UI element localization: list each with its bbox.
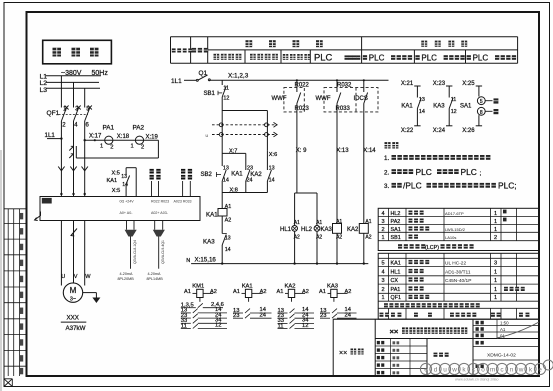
ammeter loop wire	[85, 139, 159, 141]
svg-text:8PL20MB: 8PL20MB	[118, 277, 135, 281]
left margin revision table	[4, 208, 27, 210]
svg-text:A1: A1	[225, 204, 232, 210]
svg-text:4: 4	[382, 269, 385, 275]
breaker QF1 pole 1	[60, 104, 62, 108]
svg-text:2: 2	[141, 145, 144, 151]
svg-text:KA2: KA2	[285, 283, 296, 289]
ground	[83, 292, 97, 294]
svg-text:u: u	[443, 367, 447, 374]
svg-text:N: N	[186, 258, 190, 264]
svg-text:KA2: KA2	[347, 227, 359, 233]
drawing title cell	[434, 353, 438, 357]
svg-text:1: 1	[131, 144, 134, 150]
svg-text:A37kW: A37kW	[66, 325, 86, 332]
svg-text:V: V	[74, 274, 78, 280]
svg-text:1.: 1.	[384, 155, 389, 162]
svg-text:Q3VA-CL9-4Q1: Q3VA-CL9-4Q1	[161, 240, 165, 264]
svg-text:A1: A1	[233, 289, 240, 295]
svg-text:(LCP): (LCP)	[425, 245, 439, 251]
svg-text:X:19: X:19	[146, 135, 159, 141]
start/stop signal stubs	[150, 169, 154, 174]
soft starter logo	[42, 198, 52, 204]
svg-text:14: 14	[122, 182, 128, 188]
svg-text:w: w	[518, 367, 524, 374]
junction dots at starter input	[60, 193, 62, 195]
header cell 就地控制	[214, 54, 220, 60]
svg-text:AD17-6TP: AD17-6TP	[445, 211, 464, 216]
title block frame	[333, 318, 539, 320]
svg-text:U: U	[61, 274, 65, 280]
wire phase C drop	[84, 88, 86, 104]
wire phase B drop	[73, 82, 75, 104]
header cell 到PLC位置信号	[467, 55, 471, 60]
svg-text:14: 14	[225, 247, 231, 253]
svg-text:HL2: HL2	[391, 211, 401, 217]
bus L2	[46, 81, 99, 83]
watermark swoosh	[497, 322, 539, 338]
svg-text:X:13: X:13	[336, 148, 349, 154]
svg-text:QF1: QF1	[47, 110, 60, 117]
wire phase A to starter	[60, 127, 62, 197]
svg-text:1: 1	[382, 295, 385, 301]
svg-text:k: k	[462, 367, 466, 374]
contact KA3	[448, 86, 450, 98]
terminal X:22	[414, 125, 420, 127]
svg-text:SB2: SB2	[201, 172, 213, 178]
svg-text:SA1: SA1	[460, 103, 472, 109]
soft starter box	[40, 197, 200, 221]
svg-text:2: 2	[494, 235, 497, 241]
svg-text:××: ××	[339, 350, 347, 357]
contact KA1	[416, 86, 418, 98]
svg-text:X:6: X:6	[269, 152, 277, 158]
svg-text:AD1-30/T11: AD1-30/T11	[445, 269, 471, 275]
svg-text:X:24: X:24	[433, 128, 446, 134]
svg-text:2: 2	[62, 123, 66, 129]
plug-socket row 1	[212, 124, 278, 126]
header cell 断路器	[192, 48, 196, 53]
svg-text:A1: A1	[184, 289, 191, 295]
svg-text:PLC: PLC	[473, 53, 489, 62]
svg-text:KA3: KA3	[203, 239, 215, 246]
svg-text:R033: R033	[336, 106, 351, 112]
svg-text:u: u	[206, 133, 209, 138]
header cell 运行指示	[283, 54, 289, 60]
svg-text:SA1: SA1	[391, 227, 401, 233]
motor M	[63, 283, 82, 302]
BOM table upper section	[378, 208, 539, 250]
svg-text:A2: A2	[365, 234, 371, 240]
interlock contact KA3	[221, 216, 223, 234]
svg-text:WWF: WWF	[316, 96, 331, 102]
wire phase A drop	[60, 76, 62, 104]
svg-text:1: 1	[494, 227, 497, 233]
analog output cable 2	[154, 221, 156, 230]
svg-text:4-20mA: 4-20mA	[148, 272, 161, 276]
svg-text:KA2: KA2	[250, 172, 262, 178]
svg-text:w: w	[451, 367, 457, 374]
svg-text:;: ;	[480, 170, 482, 177]
header cell 控制回路	[246, 40, 253, 47]
svg-text:PLC;: PLC;	[498, 181, 517, 191]
svg-text:X:14: X:14	[363, 148, 376, 154]
svg-text:13: 13	[269, 166, 275, 172]
svg-text:X:8: X:8	[230, 187, 238, 193]
svg-text:X:15,16: X:15,16	[195, 257, 217, 264]
svg-text:1: 1	[382, 235, 385, 241]
svg-text:1: 1	[494, 269, 497, 275]
svg-text:KA3: KA3	[321, 227, 333, 233]
svg-text:1: 1	[100, 144, 103, 150]
breaker QF1 pole 3	[84, 104, 86, 108]
svg-text:UL HC-22: UL HC-22	[445, 260, 466, 266]
svg-text:R022 R023: R022 R023	[151, 200, 169, 204]
svg-text:24: 24	[345, 312, 352, 318]
svg-text:Q3VA-CL8-1Q4: Q3VA-CL8-1Q4	[133, 240, 137, 264]
svg-text:0Ω +24V: 0Ω +24V	[120, 200, 135, 204]
svg-text:c: c	[500, 367, 504, 374]
svg-text:12: 12	[215, 323, 221, 329]
notes title 说明	[385, 142, 391, 148]
svg-text:e: e	[424, 367, 428, 374]
svg-text:23: 23	[247, 166, 253, 172]
BOM note row	[384, 303, 388, 307]
svg-text:PA2: PA2	[391, 219, 401, 225]
svg-text:XDMG-14-02: XDMG-14-02	[487, 352, 516, 358]
svg-text:KA3: KA3	[327, 283, 338, 289]
wire phase C to starter	[84, 127, 86, 197]
isolator Q1	[184, 79, 197, 81]
wire KA1 loop to starter	[125, 168, 127, 175]
plug-socket row 2	[212, 134, 278, 136]
svg-text:5: 5	[480, 99, 483, 105]
terminal X:24	[446, 125, 452, 127]
svg-text:11: 11	[451, 97, 457, 103]
svg-text:A2: A2	[302, 289, 309, 295]
svg-text:www.eduwk.cn dianqi ziliao: www.eduwk.cn dianqi ziliao	[455, 378, 499, 382]
scale cells	[473, 325, 539, 327]
svg-text:X:1,2,3: X:1,2,3	[228, 73, 249, 80]
svg-text:PLC: PLC	[421, 53, 437, 62]
svg-text:SB1: SB1	[391, 235, 401, 241]
wire SB1 to plugs	[221, 97, 223, 140]
svg-text:X:25: X:25	[462, 81, 475, 87]
svg-text:××: ××	[390, 327, 399, 336]
svg-text:X:17: X:17	[89, 134, 102, 140]
svg-text:PLC: PLC	[369, 53, 385, 62]
svg-text:2: 2	[110, 145, 113, 151]
svg-text:A1: A1	[316, 220, 322, 226]
svg-text:CX: CX	[391, 278, 399, 284]
svg-text:R032: R032	[337, 82, 352, 88]
svg-text:PLC: PLC	[461, 167, 477, 177]
wire X:13 branch	[336, 112, 338, 224]
breaker QF1 linkage	[59, 114, 89, 116]
BOM note row LCP	[398, 244, 402, 248]
svg-text:LW5-15D/2: LW5-15D/2	[445, 227, 466, 232]
svg-text:KA3: KA3	[433, 103, 445, 109]
ammeter PA1	[105, 136, 113, 144]
svg-text:11: 11	[223, 86, 229, 92]
watermark circles	[420, 363, 431, 374]
svg-text:KA1: KA1	[206, 212, 218, 219]
motor feed W	[84, 221, 86, 286]
drawing number cell	[473, 346, 539, 348]
svg-text:A2: A2	[225, 218, 232, 224]
svg-text:1: 1	[494, 219, 497, 225]
svg-text:A02+ A03-: A02+ A03-	[151, 211, 169, 215]
svg-text:A0+ A0-: A0+ A0-	[120, 211, 134, 215]
svg-text:X: 9: X: 9	[296, 148, 307, 154]
svg-text:4: 4	[382, 211, 385, 217]
svg-text:XXX: XXX	[67, 315, 79, 322]
svg-text:2: 2	[382, 287, 385, 293]
svg-text:14: 14	[223, 177, 229, 183]
wire X:14 branch	[363, 112, 365, 224]
svg-text:4: 4	[74, 123, 78, 129]
breaker QF1 pole 2	[73, 104, 75, 108]
starter shield arrow bottom	[71, 229, 77, 236]
svg-text:X:26: X:26	[462, 128, 475, 134]
svg-text:X:5: X:5	[112, 171, 120, 177]
svg-text:KA1: KA1	[391, 260, 401, 266]
svg-text:A1: A1	[277, 289, 284, 295]
signature grid	[390, 339, 392, 377]
function header table	[171, 36, 518, 38]
svg-text:3: 3	[494, 260, 497, 266]
svg-text:1L1: 1L1	[171, 78, 182, 85]
svg-text:A2: A2	[345, 289, 352, 295]
svg-text:A2: A2	[210, 289, 217, 295]
svg-text:1L1: 1L1	[45, 132, 56, 139]
svg-text:13: 13	[419, 97, 425, 103]
svg-text:PA2: PA2	[133, 125, 145, 132]
svg-text:3.: 3.	[384, 183, 389, 190]
svg-text:X:23: X:23	[433, 81, 446, 87]
svg-text:4-20mA: 4-20mA	[120, 272, 133, 276]
ammeter PA2	[135, 136, 143, 144]
BOM table lower section	[378, 253, 539, 319]
svg-text:1: 1	[494, 287, 497, 293]
watermark tail	[543, 360, 553, 370]
motor feed U	[60, 221, 62, 286]
company name cell	[375, 338, 539, 340]
svg-text:12: 12	[223, 96, 229, 102]
wire X:9 branch	[296, 112, 298, 193]
header cell 信号回路	[421, 41, 427, 47]
svg-text:WWF: WWF	[272, 96, 287, 102]
header cell 到PLC故障信号	[415, 55, 419, 60]
bottom-left X mark box	[4, 378, 12, 380]
svg-text:1: 1	[494, 211, 497, 217]
svg-text:Q1: Q1	[199, 70, 208, 77]
motor feed V	[73, 221, 75, 284]
svg-text:m: m	[490, 367, 495, 374]
svg-text:d: d	[434, 367, 438, 374]
relay coil KA1	[221, 193, 223, 209]
analog output cable 1	[126, 221, 128, 230]
cable marker chevrons	[58, 167, 64, 171]
svg-text:KA1: KA1	[401, 103, 413, 109]
svg-text:/PLC: /PLC	[403, 181, 422, 191]
bus L3	[46, 87, 100, 89]
svg-text:A1: A1	[365, 219, 371, 225]
svg-text:A1: A1	[500, 327, 506, 332]
svg-text:8: 8	[480, 110, 483, 116]
svg-text:X:5: X:5	[112, 188, 120, 194]
svg-text:6: 6	[86, 123, 90, 129]
svg-text:13: 13	[223, 166, 229, 172]
svg-text:8PL14MB: 8PL14MB	[147, 277, 164, 281]
wire phase B to starter	[73, 127, 75, 197]
svg-text:3~: 3~	[70, 297, 76, 303]
svg-text:X:21: X:21	[401, 81, 414, 87]
svg-text:1: 1	[494, 278, 497, 284]
svg-text:A023 R033: A023 R033	[174, 200, 192, 204]
svg-text:A1: A1	[336, 219, 342, 225]
selector switch SA1	[478, 86, 480, 97]
svg-text:24: 24	[260, 312, 267, 318]
svg-text:QF1: QF1	[391, 295, 401, 301]
main circuit title box 主回路	[43, 40, 112, 64]
svg-text:PA1: PA1	[103, 125, 115, 132]
bus L1	[46, 75, 101, 77]
local control branch stub	[221, 140, 223, 167]
svg-text:SB1: SB1	[204, 91, 216, 97]
svg-text:PA1: PA1	[391, 287, 401, 293]
svg-text:1:50: 1:50	[500, 321, 509, 326]
svg-text:X:22: X:22	[401, 128, 414, 134]
svg-text:KA1: KA1	[231, 172, 243, 178]
current transformer marks	[69, 146, 73, 150]
lamp HL2	[316, 193, 318, 226]
svg-text:W: W	[85, 274, 91, 280]
svg-text:KA1: KA1	[242, 283, 253, 289]
header cell 现场控制	[250, 54, 256, 60]
header cell 控制电源	[172, 48, 176, 52]
svg-text:1: 1	[494, 295, 497, 301]
svg-text:n: n	[510, 367, 514, 374]
svg-text:PLC: PLC	[314, 52, 332, 63]
svg-text:A1: A1	[294, 220, 300, 226]
svg-text:X:18: X:18	[117, 134, 130, 140]
svg-text:13: 13	[225, 235, 231, 241]
svg-text:HL1: HL1	[280, 227, 292, 233]
svg-text:k: k	[529, 367, 533, 374]
svg-text:3: 3	[382, 278, 385, 284]
svg-text:PLC: PLC	[416, 167, 432, 177]
svg-text:e: e	[538, 367, 542, 374]
lamp HL1	[294, 193, 296, 226]
wire KA1 coil to N bus	[221, 245, 223, 264]
BOM remark 厂家配套	[504, 287, 508, 291]
scan edge smudge	[0, 150, 2, 391]
svg-text:o: o	[481, 367, 485, 374]
wire link to remote column	[222, 110, 267, 112]
svg-text:R023: R023	[295, 106, 310, 112]
svg-text:C45N-40/1P: C45N-40/1P	[445, 278, 471, 284]
svg-text:12: 12	[302, 323, 308, 329]
fault signal stubs	[181, 169, 185, 174]
svg-text:12: 12	[451, 109, 457, 115]
svg-text:M: M	[70, 286, 77, 295]
terminal X:26	[476, 125, 482, 127]
svg-text:5: 5	[382, 260, 385, 266]
svg-text:LA10s: LA10s	[445, 235, 456, 240]
svg-text:HL1: HL1	[391, 269, 401, 275]
svg-text:A1: A1	[319, 289, 326, 295]
svg-text:KA1: KA1	[107, 178, 118, 184]
svg-text:14: 14	[269, 177, 275, 183]
BOM header row	[380, 313, 384, 317]
svg-text:c: c	[472, 367, 476, 374]
svg-text:3: 3	[382, 219, 385, 225]
svg-text:A2: A2	[260, 289, 267, 295]
svg-text:14: 14	[419, 109, 425, 115]
svg-text:HL2: HL2	[301, 227, 313, 233]
header cell 到PLC运行信号	[363, 55, 367, 60]
svg-text:2: 2	[382, 227, 385, 233]
starter shield arrow left	[35, 212, 41, 221]
svg-text:KM1: KM1	[192, 283, 204, 289]
svg-text:2.: 2.	[384, 169, 389, 176]
